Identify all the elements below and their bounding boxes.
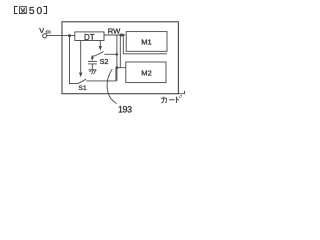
card corner tick	[178, 91, 184, 94]
wire V2: RW junction down then right to M2	[117, 35, 126, 68]
arrow onto capacitor	[91, 57, 94, 61]
svg-text:M2: M2	[141, 68, 152, 77]
svg-text:0: 0	[37, 6, 43, 17]
junction node B on RW	[120, 34, 123, 37]
figure title 図50	[15, 7, 47, 14]
capacitor lead to ground	[91, 64, 93, 70]
switch S2 fixed contact stub to node	[104, 53, 117, 55]
memory M2	[126, 62, 166, 83]
svg-text:DT: DT	[84, 33, 95, 42]
wire RW from DT to M1	[104, 34, 123, 36]
card boundary	[62, 22, 178, 94]
wire V1: RW down to S2 contact and node 193 and S1	[116, 35, 118, 81]
wire Vcc to DT	[47, 35, 75, 37]
switch S2 left stub to capacitor	[92, 56, 95, 58]
card label カード	[161, 95, 182, 103]
detector DT	[75, 32, 104, 41]
switch S1 fixed contact wire to node B	[86, 68, 116, 81]
junction dot S2 contact	[116, 53, 119, 56]
memory M1	[126, 32, 167, 52]
control wire DT to S2 (arrow)	[99, 41, 101, 47]
control wire DT to S1 (arrow)	[80, 41, 82, 74]
svg-text:M1: M1	[141, 37, 152, 46]
switch S2 lever	[95, 52, 104, 56]
capacitor C bottom plate	[88, 63, 97, 65]
junction node A	[68, 34, 71, 37]
reference numeral 193 leader curve	[107, 69, 116, 103]
svg-text:193: 193	[118, 104, 132, 114]
ground	[89, 70, 97, 74]
capacitor C top plate	[88, 60, 97, 62]
wire V3: RW down then right under M1	[123, 35, 167, 54]
svg-text:5: 5	[29, 6, 35, 17]
junction dot node 193	[116, 66, 119, 69]
wire node A down to S1	[70, 36, 79, 84]
svg-text:S1: S1	[78, 85, 87, 92]
svg-text:RW: RW	[108, 26, 121, 35]
svg-text:S2: S2	[100, 57, 109, 66]
switch S1 lever	[78, 79, 86, 84]
